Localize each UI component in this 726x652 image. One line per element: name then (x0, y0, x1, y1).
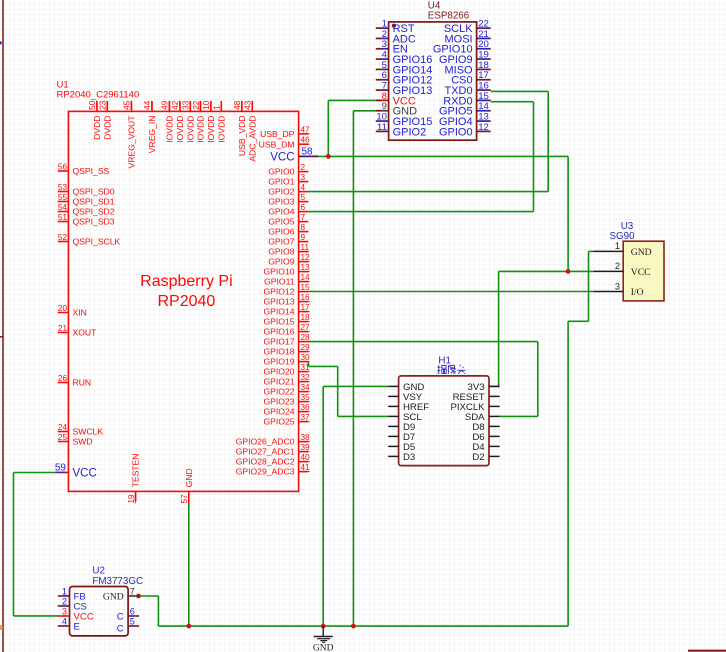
U1 pin 1 IOVDD (top) (220, 101, 222, 111)
svg-text:5: 5 (130, 616, 135, 626)
wire GND: ESP8266 pin9 GND down to ground rail (353, 110, 375, 112)
H1 pin D7 (left) (388, 435, 398, 437)
svg-text:ADC_AVDD: ADC_AVDD (247, 116, 257, 162)
svg-text:3: 3 (615, 281, 620, 291)
U1 pin 41 GPIO29_ADC3 (right) (299, 471, 309, 473)
H1 pin D2 (right) (489, 455, 500, 457)
U1 pin 59 VCC (left) (58, 472, 69, 474)
svg-text:GPIO22: GPIO22 (263, 387, 294, 397)
svg-text:GPIO28_ADC2: GPIO28_ADC2 (236, 457, 295, 467)
svg-text:16: 16 (301, 293, 311, 302)
U1 pin 12 GPIO9 (right) (299, 261, 309, 263)
svg-text:22: 22 (192, 100, 201, 110)
svg-text:31: 31 (301, 363, 311, 372)
svg-text:7: 7 (301, 213, 306, 222)
svg-text:USB_DP: USB_DP (260, 129, 295, 139)
svg-text:40: 40 (301, 453, 311, 462)
svg-text:GPIO23: GPIO23 (263, 397, 294, 407)
svg-text:27: 27 (301, 323, 311, 332)
svg-text:GPIO26_ADC0: GPIO26_ADC0 (236, 437, 295, 447)
svg-text:6: 6 (301, 203, 306, 212)
svg-text:51: 51 (58, 213, 68, 222)
U1 pin 16 GPIO13 (right) (299, 301, 309, 303)
svg-text:25: 25 (58, 433, 68, 442)
svg-text:GND: GND (313, 644, 334, 652)
svg-text:12: 12 (478, 122, 489, 133)
U1 pin 30 GPIO19 (right) (299, 361, 309, 363)
wire VCC row to SG90 VCC pin2 (499, 270, 594, 272)
U4 pin 5 GPIO14 (left) (376, 68, 389, 70)
svg-text:2: 2 (62, 596, 67, 606)
svg-text:33: 33 (182, 100, 191, 110)
sheet frame left border line (2, 0, 4, 652)
H1 pin SCL (left) (388, 415, 398, 417)
svg-text:IOVDD: IOVDD (196, 116, 206, 143)
svg-text:14: 14 (301, 273, 311, 282)
svg-text:41: 41 (301, 463, 311, 472)
svg-text:DVDD: DVDD (92, 116, 102, 140)
svg-text:4: 4 (301, 183, 306, 192)
svg-text:GPIO9: GPIO9 (268, 257, 294, 267)
U2 pin 1 FB (left) (58, 595, 70, 597)
U1 pin 36 GPIO24 (right) (299, 411, 309, 413)
svg-text:11: 11 (377, 122, 387, 133)
svg-text:GPIO16: GPIO16 (263, 327, 294, 337)
U1 pin 21 XOUT (left) (58, 332, 69, 334)
svg-text:IOVDD: IOVDD (216, 116, 226, 143)
U1 pin 40 GPIO28_ADC2 (right) (299, 461, 309, 463)
svg-text:8: 8 (301, 223, 306, 232)
svg-text:E: E (74, 621, 80, 632)
svg-text:VREG_IN: VREG_IN (147, 116, 157, 154)
U1 pin 44 VREG_IN (top) (151, 101, 153, 111)
svg-text:6: 6 (130, 606, 135, 616)
svg-text:U2: U2 (92, 565, 105, 576)
U1 pin 22 IOVDD (top) (200, 101, 202, 111)
H1 pin VSY (left) (388, 395, 398, 397)
U1 pin 51 QSPI_SD3 (left) (58, 221, 69, 223)
svg-text:1: 1 (213, 105, 222, 110)
U1 pin 17 GPIO14 (right) (299, 311, 309, 313)
svg-text:4: 4 (62, 616, 67, 626)
IC U1 RP2040 body outline (68, 111, 298, 491)
svg-text:QSPI_SD3: QSPI_SD3 (73, 217, 115, 227)
U1 pin 49 IOVDD (top) (169, 101, 171, 111)
U4 pin 15 RXD0 (right) (477, 99, 491, 101)
svg-text:SWCLK: SWCLK (73, 427, 104, 437)
U3 pin 1 GND (594, 250, 624, 252)
svg-text:C: C (117, 612, 124, 623)
ground symbol GND (314, 626, 333, 642)
wire GND: camera GND to rail (323, 385, 388, 387)
svg-text:QSPI_SCLK: QSPI_SCLK (73, 237, 121, 247)
H1 pin SDA (right) (489, 415, 500, 417)
svg-text:20: 20 (58, 304, 68, 313)
U1 pin 35 GPIO23 (right) (299, 401, 309, 403)
U1 pin 43 ADC_AVDD (top) (251, 101, 253, 111)
H1 pin D5 (left) (388, 445, 398, 447)
svg-text:DVDD: DVDD (102, 115, 112, 139)
U4 pin 17 CS0 (right) (477, 79, 491, 81)
U1 pin 34 GPIO22 (right) (299, 391, 309, 393)
H1 pin D8 (right) (489, 425, 500, 427)
svg-text:9: 9 (301, 233, 306, 242)
svg-text:QSPI_SS: QSPI_SS (73, 166, 110, 176)
svg-text:FM3773GC: FM3773GC (92, 576, 143, 587)
U4 pin 13 GPIO4 (right) (477, 120, 491, 122)
U1 pin 2 GPIO0 (right) (299, 171, 309, 173)
U1 pin 47 USB_DP (right) (299, 133, 309, 135)
svg-text:GPIO15: GPIO15 (263, 317, 294, 327)
frame orange diamond marker (0, 625, 3, 631)
svg-text:XIN: XIN (73, 308, 87, 318)
svg-text:GPIO7: GPIO7 (268, 237, 294, 247)
U1 pin 14 GPIO11 (right) (299, 281, 309, 283)
frame blue tick marker (0, 41, 2, 44)
svg-text:GPIO11: GPIO11 (264, 277, 295, 287)
wire GPIO4 to ESP RXD0 (308, 211, 533, 213)
U1 pin 26 RUN (left) (58, 382, 69, 384)
svg-text:42: 42 (171, 100, 180, 110)
U1 pin 32 GPIO21 (right) (299, 381, 309, 383)
svg-text:GPIO21: GPIO21 (263, 377, 294, 387)
svg-text:GPIO2: GPIO2 (268, 187, 294, 197)
U1 pin 55 QSPI_SD1 (left) (58, 201, 69, 203)
svg-text:RP2040_C2961140: RP2040_C2961140 (57, 89, 140, 100)
svg-text:I/O: I/O (631, 287, 644, 298)
servo U3 SG90 body (yellow) (623, 241, 664, 301)
U1 pin 10 IOVDD (top) (210, 101, 212, 111)
svg-text:GPIO6: GPIO6 (268, 227, 294, 237)
U4 pin 9 GND (left) (376, 110, 389, 112)
U2 pin 4 E (left) (58, 625, 70, 627)
svg-text:15: 15 (301, 283, 311, 292)
H1 pin D9 (left) (388, 425, 398, 427)
U4 pin 20 GPIO10 (right) (477, 48, 491, 50)
svg-text:1: 1 (615, 241, 620, 251)
U1 pin 4 GPIO2 (right) (299, 191, 309, 193)
H1 pin RESET (right) (489, 395, 500, 397)
U1 pin 24 SWCLK (left) (58, 431, 69, 433)
svg-text:XOUT: XOUT (73, 328, 98, 338)
wire VCC: ESP8266 pin8 VCC to VCC net vertical (328, 99, 376, 101)
wire GPIO19 to camera SCL (307, 362, 309, 367)
svg-text:45: 45 (123, 100, 132, 110)
U1 pin 33 IOVDD (top) (189, 101, 191, 111)
junction rail GND symbol (321, 624, 326, 629)
svg-text:GPIO13: GPIO13 (263, 297, 294, 307)
U4 pin 6 GPIO12 (left) (376, 79, 389, 81)
wire GPIO12 to SG90 I/O (308, 291, 593, 293)
U1 pin 53 QSPI_SD0 (left) (58, 191, 69, 193)
svg-text:C: C (117, 624, 124, 635)
wire VCC net vertical down to SG90 row (567, 156, 569, 271)
svg-text:QSPI_SD0: QSPI_SD0 (73, 187, 115, 197)
svg-text:57: 57 (180, 494, 189, 504)
H1 pin GND (left) (388, 385, 398, 387)
H1 pin D3 (left) (388, 455, 398, 457)
IC U2 FM3773GC body outline (70, 587, 129, 636)
H1 pin PIXCLK (right) (489, 405, 500, 407)
U1 pin 52 QSPI_SCLK (left) (58, 241, 69, 243)
svg-text:19: 19 (127, 494, 136, 504)
svg-text:GPIO2: GPIO2 (393, 126, 427, 138)
wire GND: SG90 pin1 down to rail (589, 250, 594, 252)
svg-text:TESTEN: TESTEN (131, 453, 141, 487)
svg-text:ESP8266: ESP8266 (428, 10, 470, 21)
svg-text:USB_DM: USB_DM (259, 139, 295, 149)
U1 pin 15 GPIO12 (right) (299, 291, 309, 293)
H1 pin D4 (right) (489, 445, 500, 447)
U2 pin 7 GND (right) (128, 595, 139, 597)
svg-text:QSPI_SD1: QSPI_SD1 (73, 197, 115, 207)
svg-text:59: 59 (55, 463, 67, 474)
U4 pin 21 MOSI (right) (477, 37, 491, 39)
U4 pin 4 GPIO16 (left) (376, 58, 389, 60)
U4 pin-1 marker dot (392, 24, 396, 28)
H1 part name (camera, drawn glyphs) (437, 365, 465, 374)
wire VCC58 horizontal from RP2040 VCC pin58 to right (318, 155, 569, 157)
wire VCC branch down to camera 3V3 (498, 271, 500, 386)
U1 pin 31 GPIO20 (right) (299, 371, 309, 373)
U4 pin 12 GPIO0 (right) (477, 130, 491, 132)
svg-text:SG90: SG90 (609, 231, 635, 242)
svg-text:52: 52 (58, 233, 68, 242)
svg-text:58: 58 (302, 147, 314, 158)
U2 pin 6 C (right) (128, 615, 139, 617)
svg-text:5: 5 (301, 193, 306, 202)
U1 pin 7 GPIO5 (right) (299, 221, 309, 223)
svg-text:D2: D2 (472, 452, 484, 463)
U1 pin 9 GPIO7 (right) (299, 241, 309, 243)
svg-text:53: 53 (58, 183, 68, 192)
U4 pin 16 TXD0 (right) (477, 89, 491, 91)
wire ground rail horizontal (158, 625, 568, 627)
svg-text:1: 1 (62, 586, 67, 596)
junction rail ESP GND (351, 624, 356, 629)
U1 pin 11 GPIO8 (right) (299, 251, 309, 253)
U4 pin 10 GPIO15 (left) (376, 120, 389, 122)
svg-text:GPIO19: GPIO19 (263, 357, 294, 367)
U1 pin 54 QSPI_SD2 (left) (58, 211, 69, 213)
svg-text:GPIO5: GPIO5 (268, 217, 294, 227)
svg-text:QSPI_SD2: QSPI_SD2 (73, 207, 115, 217)
svg-text:55: 55 (58, 193, 68, 202)
svg-text:43: 43 (244, 100, 253, 110)
svg-text:IOVDD: IOVDD (185, 116, 195, 143)
U1 pin 27 GPIO16 (right) (299, 331, 309, 333)
wire GPIO17 to camera SDA (308, 341, 537, 343)
U3 pin 2 VCC (594, 270, 624, 272)
svg-text:D3: D3 (403, 452, 415, 463)
svg-text:39: 39 (301, 443, 311, 452)
partial component box bottom-right corner (688, 650, 726, 652)
svg-text:38: 38 (301, 433, 311, 442)
svg-text:11: 11 (301, 243, 310, 252)
svg-text:Raspberry Pi: Raspberry Pi (140, 273, 232, 290)
U1 pin 29 GPIO18 (right) (299, 351, 309, 353)
svg-text:7: 7 (130, 586, 135, 596)
U4 pin 7 GPIO13 (left) (376, 89, 389, 91)
svg-text:GPIO17: GPIO17 (263, 337, 294, 347)
svg-text:GPIO8: GPIO8 (268, 247, 294, 257)
svg-text:23: 23 (99, 100, 108, 110)
svg-text:H1: H1 (438, 355, 451, 366)
U1 pin 20 XIN (left) (58, 312, 69, 314)
svg-text:21: 21 (58, 324, 68, 333)
svg-text:GND: GND (103, 591, 124, 602)
U1 pin 46 USB_DM (right) (299, 143, 309, 145)
junction rail RP2040 GND (186, 624, 191, 629)
U1 pin 18 GPIO15 (right) (299, 321, 309, 323)
junction VCC-SG90 (566, 269, 571, 274)
svg-text:GPIO20: GPIO20 (263, 367, 294, 377)
sheet frame row tick (0, 336, 3, 338)
svg-text:13: 13 (301, 263, 311, 272)
svg-text:56: 56 (58, 163, 68, 172)
svg-text:IOVDD: IOVDD (175, 116, 185, 143)
svg-text:35: 35 (301, 393, 311, 402)
svg-text:VCC: VCC (270, 152, 294, 164)
U1 pin 8 GPIO6 (right) (299, 231, 309, 233)
svg-text:GPIO29_ADC3: GPIO29_ADC3 (236, 467, 295, 477)
U1 pin 6 GPIO4 (right) (299, 211, 309, 213)
U4 pin 8 VCC (left) (376, 99, 389, 101)
U1 pin 45 VREG_VOUT (top) (131, 101, 133, 111)
svg-text:GPIO0: GPIO0 (439, 126, 473, 138)
U4 pin 11 GPIO2 (left) (376, 130, 389, 132)
svg-text:SWD: SWD (73, 437, 93, 447)
svg-text:10: 10 (202, 100, 211, 110)
U3 pin 3 I/O (594, 291, 624, 293)
svg-text:GPIO3: GPIO3 (268, 197, 294, 207)
U1 pin 37 GPIO25 (right) (299, 421, 309, 423)
U1 pin 28 GPIO17 (right) (299, 341, 309, 343)
U1 pin 3 GPIO1 (right) (299, 181, 309, 183)
U1 pin 50 DVDD (top) (96, 101, 98, 111)
wire GND: U2 GND pin7 to ground rail (139, 595, 159, 597)
svg-text:2: 2 (301, 163, 306, 172)
U1 pin 39 GPIO27_ADC1 (right) (299, 451, 309, 453)
svg-text:28: 28 (301, 333, 311, 342)
U2 pin 2 CS (left) (58, 605, 70, 607)
U4 pin 18 MISO (right) (477, 68, 491, 70)
svg-text:54: 54 (58, 203, 68, 212)
svg-text:26: 26 (58, 374, 68, 383)
IC U4 ESP8266 body outline (389, 22, 477, 140)
svg-text:GPIO14: GPIO14 (263, 307, 294, 317)
U4 pin 22 SCLK (right) (477, 27, 491, 29)
svg-text:VCC: VCC (73, 468, 97, 480)
U1 pin 13 GPIO10 (right) (299, 271, 309, 273)
junction U2 GND (136, 594, 141, 599)
wire VCC59 from RP2040 left to U2 VCC (14, 472, 58, 474)
svg-text:32: 32 (301, 373, 311, 382)
svg-text:49: 49 (161, 100, 170, 110)
wire GND: RP2040 pin57 down to rail (188, 502, 190, 627)
U4 pin 1 RST (left) (376, 27, 389, 29)
connector H1 camera body outline (399, 376, 489, 466)
svg-text:3: 3 (301, 173, 306, 182)
svg-text:RUN: RUN (73, 378, 92, 388)
svg-text:GPIO18: GPIO18 (263, 347, 294, 357)
svg-text:VREG_VOUT: VREG_VOUT (127, 115, 137, 169)
U1 pin 38 GPIO26_ADC0 (right) (299, 441, 309, 443)
svg-text:47: 47 (301, 125, 311, 134)
svg-text:GPIO0: GPIO0 (268, 167, 294, 177)
U4 pin 19 GPIO9 (right) (477, 58, 491, 60)
U1 pin 5 GPIO3 (right) (299, 201, 309, 203)
svg-text:IOVDD: IOVDD (165, 116, 175, 143)
U1 pin 56 QSPI_SS (left) (58, 170, 69, 172)
svg-text:GND: GND (184, 468, 194, 487)
svg-text:3: 3 (62, 606, 67, 616)
U1 pin 19 TESTEN (bottom) (135, 491, 137, 501)
svg-text:VCC: VCC (631, 267, 651, 278)
svg-text:34: 34 (301, 383, 311, 392)
U2 pin 5 C (right) (128, 625, 139, 627)
H1 pin D6 (right) (489, 435, 500, 437)
junction VCC58 (326, 154, 331, 159)
U1 pin 57 GND (bottom) (188, 491, 190, 501)
svg-text:2: 2 (615, 261, 620, 271)
svg-text:36: 36 (301, 403, 311, 412)
svg-text:12: 12 (301, 253, 311, 262)
svg-text:GPIO24: GPIO24 (263, 407, 294, 417)
H1 pin HREF (left) (388, 405, 398, 407)
svg-text:17: 17 (301, 303, 311, 312)
svg-text:IOVDD: IOVDD (206, 116, 216, 143)
svg-text:GPIO4: GPIO4 (268, 207, 294, 217)
svg-text:29: 29 (301, 343, 311, 352)
svg-text:RP2040: RP2040 (157, 293, 215, 310)
svg-text:GPIO1: GPIO1 (268, 177, 294, 187)
svg-text:18: 18 (301, 313, 311, 322)
svg-text:50: 50 (88, 100, 97, 110)
U4 pin 2 ADC (left) (376, 37, 389, 39)
svg-text:GPIO12: GPIO12 (263, 287, 294, 297)
wire GPIO2 to ESP TXD0 (308, 191, 548, 193)
svg-text:USB_VDD: USB_VDD (237, 116, 247, 157)
svg-text:44: 44 (143, 100, 152, 110)
H1 pin 3V3 (right) (489, 385, 500, 387)
U1 pin 58 VCC (right) (299, 155, 318, 157)
U1 pin 23 DVDD (top) (106, 101, 108, 111)
U1 pin 25 SWD (left) (58, 441, 69, 443)
svg-text:GPIO27_ADC1: GPIO27_ADC1 (236, 447, 295, 457)
svg-text:24: 24 (58, 423, 68, 432)
U1 pin 48 USB_VDD (top) (241, 101, 243, 111)
U1 pin 42 IOVDD (top) (179, 101, 181, 111)
svg-text:30: 30 (301, 353, 311, 362)
svg-text:GND: GND (631, 247, 652, 258)
U4 pin 3 EN (left) (376, 48, 389, 50)
svg-text:37: 37 (301, 413, 311, 422)
svg-text:48: 48 (233, 100, 242, 110)
svg-text:GPIO10: GPIO10 (263, 267, 294, 277)
U2 pin 3 VCC (left) (58, 615, 70, 617)
svg-text:46: 46 (301, 136, 311, 145)
svg-text:GPIO25: GPIO25 (263, 417, 294, 427)
U4 pin 14 GPIO5 (right) (477, 110, 491, 112)
